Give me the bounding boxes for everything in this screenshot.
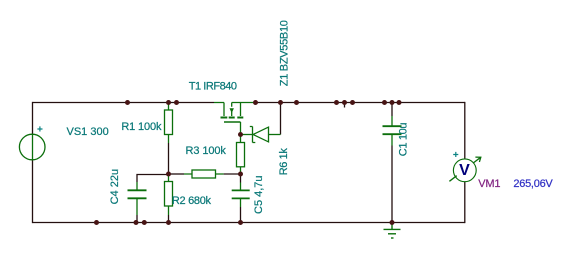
junction Z1 branch on top net	[278, 100, 283, 105]
junction stub on top net at x=344	[342, 100, 347, 105]
capacitor C1	[383, 126, 402, 134]
junction on bottom net at x=144	[142, 220, 147, 225]
wire right branch	[464, 102, 466, 223]
VS1 plus sign	[37, 126, 42, 131]
svg-text:V: V	[459, 162, 470, 179]
arrow through meter	[449, 157, 480, 181]
junction on top net at x=352	[350, 100, 355, 105]
wire zener anode to top net	[280, 103, 282, 135]
svg-text:265,06V: 265,06V	[513, 178, 553, 190]
junction R2 bottom pin	[166, 220, 171, 225]
junction C5 bottom pin	[238, 220, 243, 225]
junction on top net at x=384	[382, 100, 387, 105]
wire C5 leads	[240, 174, 242, 223]
node B (R3/R6/C5 junction)	[238, 172, 243, 177]
wire R2 bottom	[168, 215, 170, 223]
junction T1 source wire	[253, 100, 258, 105]
wire C1 leads	[391, 103, 393, 223]
capacitor C5	[232, 190, 250, 198]
wire left branch	[32, 102, 34, 223]
node A (R1/R2/R3/C4 junction)	[166, 172, 171, 177]
drain side green lead	[214, 103, 224, 117]
resistor R3	[184, 170, 224, 178]
junction ground / C1 bottom pin	[390, 220, 395, 225]
svg-text:VM1: VM1	[478, 178, 500, 190]
junction C4 bottom pin	[134, 220, 139, 225]
capacitor C4	[128, 190, 147, 198]
svg-text:R2 680k: R2 680k	[172, 195, 212, 207]
svg-text:C5 4,7u: C5 4,7u	[253, 175, 265, 214]
junction on top net at x=296	[294, 100, 299, 105]
voltmeter VM1	[449, 157, 480, 182]
resistor R6	[237, 135, 245, 175]
source/body top lead	[232, 103, 254, 117]
junction C1 top pin	[390, 100, 395, 105]
svg-text:R1 100k: R1 100k	[121, 121, 162, 133]
svg-text:C4 22u: C4 22u	[109, 169, 121, 204]
svg-text:Z1 BZV55B10: Z1 BZV55B10	[279, 20, 291, 86]
C4 bottom lead wire	[136, 215, 138, 223]
wire stub on top net	[344, 103, 346, 108]
resistor R1	[165, 103, 173, 144]
anode lead	[269, 134, 281, 136]
junction R1 top pin	[166, 100, 171, 105]
ground	[384, 224, 401, 238]
voltage source VS1	[19, 134, 45, 160]
svg-text:R6 1k: R6 1k	[278, 148, 290, 176]
junction on top net at x=336	[334, 100, 339, 105]
wire R1 bottom to node A	[168, 143, 170, 174]
VM1 plus sign	[453, 152, 458, 157]
triangle	[253, 127, 268, 142]
junction on top net at x=176	[174, 100, 179, 105]
wire top-right net (T1 source to VM1)	[253, 102, 464, 104]
wire R3 right to node B	[224, 173, 241, 175]
gate bar	[224, 121, 241, 123]
svg-text:C1 10u: C1 10u	[398, 123, 410, 157]
svg-text:R3 100k: R3 100k	[186, 145, 227, 157]
node G (T1 gate / Z1 / R6 junction)	[238, 132, 243, 137]
gate lead down to node B2	[240, 122, 242, 135]
cathode bar with ticks	[250, 127, 256, 143]
junction on top net at x=127	[125, 100, 130, 105]
junction on top net at x=399	[397, 100, 402, 105]
svg-text:T1 IRF840: T1 IRF840	[189, 81, 237, 93]
transistor T1 (MOSFET)	[214, 103, 253, 135]
junction on bottom net at x=96	[94, 220, 99, 225]
zener diode Z1	[241, 127, 281, 143]
wire C4 top to node A	[137, 175, 169, 183]
wire top-left net (VS1+ to T1 drain)	[33, 102, 215, 104]
wire node A to R3 left	[169, 173, 185, 175]
svg-text:VS1 300: VS1 300	[67, 126, 109, 138]
cathode lead	[241, 134, 253, 136]
T1 body arrow	[230, 108, 234, 113]
wire bottom net	[33, 222, 465, 224]
T1 channel contact bars	[221, 117, 244, 119]
resistor R2	[165, 174, 173, 215]
